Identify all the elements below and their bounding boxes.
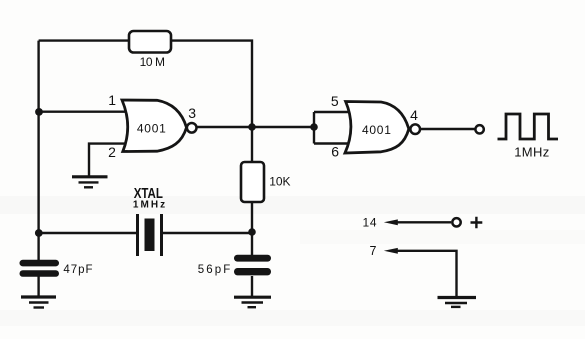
output terminal circle <box>475 125 483 133</box>
svg-text:4001: 4001 <box>137 122 166 136</box>
resistor R1 10M <box>129 31 171 69</box>
svg-text:3: 3 <box>188 105 196 121</box>
capacitor C1 47pF <box>20 260 93 277</box>
wire 10K bottom to node <box>251 202 253 232</box>
svg-text:4001: 4001 <box>362 123 391 137</box>
wire pin 1 input <box>39 110 129 112</box>
svg-text:10K: 10K <box>269 175 290 189</box>
node C junction gate1 output-feedback <box>248 123 256 131</box>
ground pin7 <box>438 298 477 307</box>
svg-text:14: 14 <box>363 215 377 229</box>
wire crystal row right <box>163 232 252 234</box>
crystal XTAL 1MHz <box>133 185 165 256</box>
svg-text:7: 7 <box>370 244 377 258</box>
wire rail to 47pF <box>37 233 39 261</box>
svg-text:2: 2 <box>108 144 116 160</box>
svg-text:47pF: 47pF <box>63 264 92 276</box>
svg-text:56pF: 56pF <box>198 264 231 276</box>
op-amp U1A NOR gate 4001 <box>122 100 197 152</box>
node B junction rail-crystal <box>35 229 43 237</box>
wire 56pF to ground <box>251 276 253 297</box>
wire gate2 output <box>421 128 475 130</box>
arrow pin 7 <box>384 248 398 254</box>
svg-text:5: 5 <box>331 93 339 109</box>
svg-text:4: 4 <box>410 107 418 123</box>
wire 47pF to ground <box>37 276 39 297</box>
node D junction gate2 input <box>310 123 318 131</box>
svg-text:6: 6 <box>331 144 339 160</box>
wire left vertical rail <box>37 41 39 233</box>
wire pin 14 power <box>396 221 451 223</box>
square wave output symbol <box>498 114 559 139</box>
ground pin2 <box>72 177 108 188</box>
plus label <box>471 217 483 229</box>
wire pin 7 to ground <box>396 251 457 297</box>
op-amp U1B NOR gate 4001 <box>345 102 420 154</box>
wire node to 10K top <box>251 127 253 162</box>
power terminal circle <box>452 218 460 226</box>
arrow pin 14 <box>384 219 398 225</box>
wire gate2 input connector <box>314 112 350 144</box>
svg-text:1MHz: 1MHz <box>514 144 549 159</box>
wire gate1 output to gate2 input <box>197 126 314 128</box>
wire top feedback right segment <box>171 41 252 127</box>
resistor R2 10K <box>241 162 291 202</box>
svg-text:1: 1 <box>108 92 116 108</box>
node A junction rail-pin1 <box>35 108 43 116</box>
node E junction 10K-crystal-56pF <box>248 228 256 236</box>
ground 47pF <box>21 297 56 308</box>
wire crystal row left <box>39 232 136 234</box>
wire pin 2 to ground <box>89 144 129 176</box>
wire node to 56pF <box>251 232 253 256</box>
ground 56pF <box>234 297 271 307</box>
svg-text:10 M: 10 M <box>140 55 165 69</box>
wire top feedback left segment <box>39 39 129 41</box>
capacitor C2 56pF <box>198 255 271 276</box>
